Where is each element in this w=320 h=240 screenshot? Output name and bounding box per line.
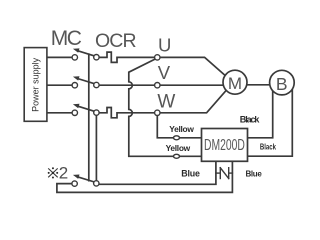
wire brake B to DM200D black lower [248,90,293,156]
label ※2 reference mark [48,168,58,177]
overload relay OCR element 2 (with wires to node V) [99,84,155,86]
brake B circle [270,70,295,95]
svg-text:Blue: Blue [246,170,263,179]
switch SW2 arrowhead [73,175,80,179]
svg-text:DM200D: DM200D [204,136,245,154]
wire L2 (power supply to MC pole 2) [47,84,73,86]
connector on upper yellow lead [174,136,180,140]
contactor MC pole 1 contacts [72,55,77,60]
wire node U to motor M [160,57,227,76]
motor M circle [223,70,247,94]
svg-text:Yellow: Yellow [169,124,194,134]
wire DM200D right terminal to blue bottom return [57,161,233,192]
svg-text:Black: Black [240,114,261,124]
wire node W to motor M [160,89,227,112]
wire U branch to brake pack yellow lead (hops over V and W rows) [129,59,202,156]
svg-text:W: W [157,91,175,112]
svg-text:Yellow: Yellow [166,143,191,153]
contactor MC pole 2 blade [78,79,95,84]
contactor MC pole 3 blade [78,106,95,111]
node W [155,110,160,115]
overload relay OCR element 1 (with wires to node U) [99,52,155,62]
svg-text:Black: Black [260,141,277,151]
contactor MC pole 2 arrowhead [73,76,80,80]
wire A (MC pole1 blade tap down to switch SW2 blade) [88,54,90,180]
thermal protector TP (N symbol) [216,168,233,179]
overload relay OCR element 3 (with wires to node W) [99,108,155,118]
wire L3 (power supply to MC pole 3) [47,112,73,114]
wire node V to motor M [160,84,223,86]
switch SW2 contacts [72,181,77,186]
svg-text:M: M [228,74,242,93]
wire W branch to brake pack yellow lead [157,115,201,138]
contactor MC pole 2 contacts [72,83,77,88]
wire brake B to DM200D black upper [248,91,273,138]
wire B (MC pole3 right contact down to SW2 right contact) [95,114,97,184]
wire motor M to brake B [247,84,270,86]
power supply box [24,48,47,122]
node U [155,55,160,60]
svg-text:V: V [158,62,171,83]
svg-text:2: 2 [59,164,68,183]
node V [155,83,160,88]
brake pack DM200D box [202,129,248,162]
wire L1 (power supply to MC pole 1) [47,56,73,58]
svg-text:MC: MC [51,27,82,50]
svg-text:OCR: OCR [95,30,136,52]
svg-text:Blue: Blue [181,168,200,178]
contactor MC pole 3 contacts [72,110,77,115]
switch SW2 blade [78,177,95,182]
connector on lower yellow lead [174,154,180,158]
wire DM200D left terminal to blue lead and switch SW2 [99,161,216,184]
contactor MC pole 1 arrowhead [73,48,80,52]
contactor MC pole 3 arrowhead [73,104,80,108]
svg-text:U: U [158,35,171,56]
contactor MC pole 1 blade [78,51,95,56]
svg-text:Power supply: Power supply [30,57,40,112]
svg-text:B: B [276,74,288,94]
